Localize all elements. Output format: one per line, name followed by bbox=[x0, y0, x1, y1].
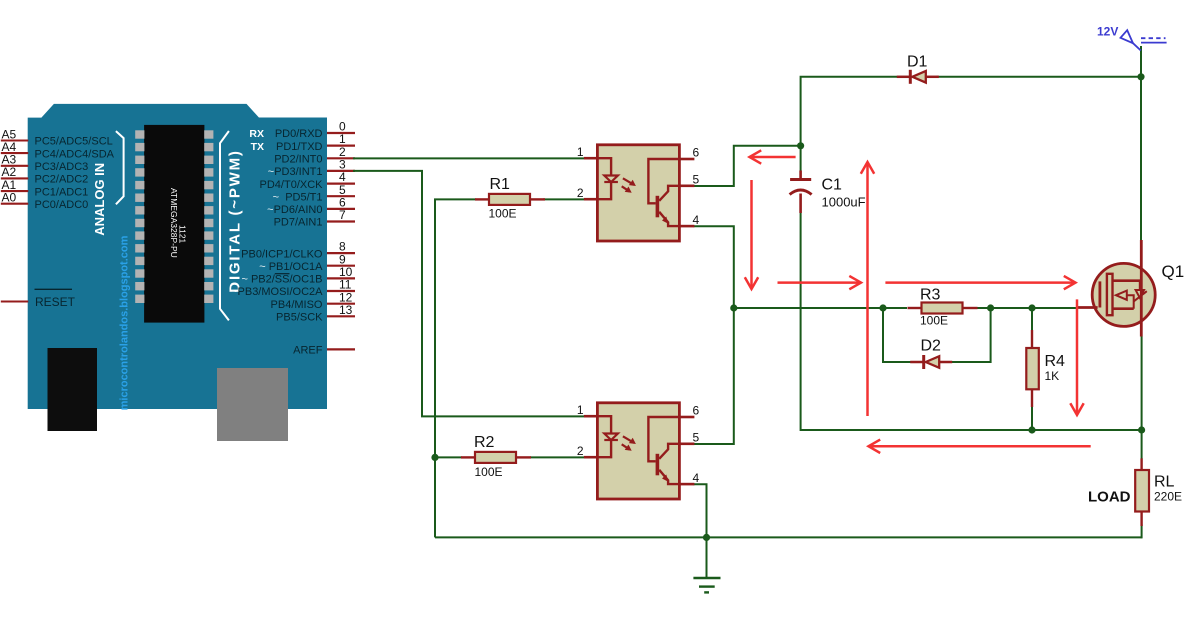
wire opto U2 pin4 to ground tap bbox=[694, 484, 707, 537]
svg-text:6: 6 bbox=[693, 404, 700, 418]
pin 2 bbox=[327, 157, 355, 159]
bracket digital pins bbox=[220, 131, 229, 320]
pin 10 bbox=[327, 277, 355, 279]
resistor R3 body bbox=[908, 307, 922, 309]
svg-text:RX: RX bbox=[249, 128, 264, 140]
pin RESET bbox=[1, 300, 29, 302]
bottom ground rail wire bbox=[435, 536, 1142, 538]
junction C1 node bbox=[797, 142, 804, 149]
power jack (black) bbox=[48, 348, 98, 431]
svg-text:DIGITAL (~PWM): DIGITAL (~PWM) bbox=[227, 149, 244, 292]
optocoupler U1 (top) bbox=[584, 145, 695, 241]
pin A1 PC1/ADC1 bbox=[1, 190, 29, 192]
diode D1 bbox=[897, 76, 911, 79]
pin A0 PC0/ADC0 bbox=[1, 203, 29, 205]
pin 3 bbox=[327, 170, 355, 172]
svg-text:PD4/T0/XCK: PD4/T0/XCK bbox=[260, 179, 324, 191]
pin 6 bbox=[327, 208, 355, 210]
svg-text:D1: D1 bbox=[907, 54, 928, 71]
svg-text:~PB3/MOSI/OC2A: ~PB3/MOSI/OC2A bbox=[231, 286, 323, 298]
wire pin3 down to opto U2 pin1 bbox=[353, 171, 585, 417]
wire Q1 source down bbox=[1141, 337, 1143, 431]
C1 top lead green bbox=[800, 146, 802, 171]
svg-text:6: 6 bbox=[693, 146, 700, 160]
junction gate bus left bbox=[730, 304, 737, 311]
optocoupler U2 (bottom) bbox=[584, 403, 695, 499]
junction ground tap bbox=[703, 534, 710, 541]
svg-text:~ PB1/OC1A: ~ PB1/OC1A bbox=[259, 261, 323, 273]
red arrow current left (top) bbox=[750, 150, 796, 163]
resistor RL (vertical, load) bbox=[1140, 458, 1142, 471]
pin 5 bbox=[327, 195, 355, 197]
arduino board U? (SIMULINO UNO) body bbox=[28, 104, 327, 409]
svg-text:PD7/AIN1: PD7/AIN1 bbox=[274, 217, 323, 229]
svg-text:TX: TX bbox=[251, 141, 264, 153]
svg-text:PD0/RXD: PD0/RXD bbox=[275, 128, 323, 140]
wire opto U2 pin5 up to gate bus bbox=[694, 308, 734, 444]
svg-text:PC0/ADC0: PC0/ADC0 bbox=[35, 199, 89, 211]
svg-text:microcontrolandos.blogspot.com: microcontrolandos.blogspot.com bbox=[119, 235, 131, 410]
wire RL top lead bbox=[1141, 430, 1143, 459]
svg-text:~ PD5/T1: ~ PD5/T1 bbox=[273, 191, 323, 203]
svg-text:PC4/ADC4/SDA: PC4/ADC4/SDA bbox=[35, 148, 115, 160]
wire opto U1 pin4 down to gate bus bbox=[694, 226, 734, 308]
wire pin2 to opto U1 pin1 bbox=[353, 157, 585, 159]
pin 11 bbox=[327, 290, 355, 292]
wire R2 left bbox=[435, 456, 462, 458]
pin 9 bbox=[327, 265, 355, 267]
svg-text:1: 1 bbox=[577, 145, 584, 159]
svg-text:220E: 220E bbox=[1154, 490, 1182, 504]
12V rail down to Q1 drain bbox=[1140, 46, 1142, 240]
svg-text:LOAD: LOAD bbox=[1088, 489, 1131, 506]
red arrow current up (middle) bbox=[861, 162, 874, 416]
pin 7 bbox=[327, 220, 355, 222]
junction 12V / D1 bbox=[1137, 73, 1144, 80]
pin A4 PC4/ADC4/SDA bbox=[1, 152, 29, 154]
wire junction R1/R2 left bbox=[431, 454, 438, 461]
red arrow current right 2 bbox=[885, 276, 1075, 289]
red arrow current left (bottom) bbox=[869, 440, 1091, 453]
wire R1 right to opto U1 pin2 bbox=[543, 198, 585, 200]
svg-text:PB0/ICP1/CLKO: PB0/ICP1/CLKO bbox=[241, 248, 323, 260]
resistor R2 body bbox=[461, 456, 475, 458]
svg-text:~PD6/AIN0: ~PD6/AIN0 bbox=[267, 204, 322, 216]
C1 bottom to source bus wire bbox=[801, 213, 1142, 430]
usb connector (gray) bbox=[217, 368, 288, 441]
svg-text:100E: 100E bbox=[489, 207, 517, 221]
red arrow current down (right) bbox=[1070, 299, 1083, 415]
wire R2 right to opto U2 pin2 bbox=[530, 456, 585, 458]
svg-text:~PD3/INT1: ~PD3/INT1 bbox=[268, 166, 323, 178]
svg-text:100E: 100E bbox=[920, 314, 948, 328]
svg-text:PD2/INT0: PD2/INT0 bbox=[274, 154, 322, 166]
svg-text:12V: 12V bbox=[1097, 25, 1118, 39]
wire R1 left + vertical to R2/ground rail bbox=[435, 199, 476, 537]
svg-text:100E: 100E bbox=[475, 465, 503, 479]
svg-text:RESET: RESET bbox=[35, 295, 76, 309]
resistor R1 body bbox=[475, 198, 489, 200]
red arrow current right 1 bbox=[778, 276, 862, 289]
svg-text:7: 7 bbox=[339, 208, 346, 222]
svg-text:1K: 1K bbox=[1045, 369, 1060, 383]
junction R3 right / D2 bbox=[987, 304, 994, 311]
resistor R4 (vertical) bbox=[1031, 330, 1033, 348]
svg-text:Q1: Q1 bbox=[1162, 262, 1185, 281]
svg-text:R1: R1 bbox=[490, 176, 511, 193]
svg-text:2: 2 bbox=[577, 444, 584, 458]
red arrow current down (left) bbox=[745, 180, 758, 289]
svg-text:1121: 1121 bbox=[178, 225, 188, 244]
ground wire down bbox=[706, 537, 708, 578]
junction Q1 source / RL bbox=[1138, 426, 1145, 433]
svg-text:D2: D2 bbox=[921, 338, 942, 355]
svg-text:C1: C1 bbox=[822, 177, 843, 194]
wire R4 top lead bbox=[1031, 308, 1033, 334]
wire D1 right to 12V rail bbox=[937, 76, 1142, 78]
junction R3 left / D2 bbox=[879, 304, 886, 311]
transistor Q1 (MOSFET) bbox=[1078, 240, 1155, 337]
svg-text:4: 4 bbox=[693, 471, 700, 485]
svg-text:1: 1 bbox=[577, 403, 584, 417]
svg-text:~ PB2/SS/OC1B: ~ PB2/SS/OC1B bbox=[241, 274, 322, 286]
svg-text:4: 4 bbox=[693, 213, 700, 227]
wire RL bottom lead to rail bbox=[1141, 525, 1143, 539]
wire opto U1 pin5 up to C1 node bbox=[694, 146, 801, 186]
IC ATMEGA328P body bbox=[144, 125, 204, 323]
svg-text:A0: A0 bbox=[2, 191, 17, 205]
overline for SS bbox=[275, 273, 290, 275]
pin 4 bbox=[327, 183, 355, 185]
svg-text:PC3/ADC3: PC3/ADC3 bbox=[35, 161, 89, 173]
capacitor C1 bbox=[799, 171, 802, 180]
svg-text:ANALOG IN: ANALOG IN bbox=[92, 163, 107, 236]
pin 12 bbox=[327, 303, 355, 305]
junction R4 top bbox=[1028, 304, 1035, 311]
pin A5 PC5/ADC5/SCL bbox=[1, 139, 29, 141]
diode D2 bbox=[910, 361, 924, 364]
svg-text:PC1/ADC1: PC1/ADC1 bbox=[35, 186, 89, 198]
power terminal 12V bbox=[1121, 30, 1167, 50]
bracket analog pins bbox=[116, 131, 124, 204]
svg-text:2: 2 bbox=[577, 186, 584, 200]
pin A2 PC2/ADC2 bbox=[1, 177, 29, 179]
IC pins left/right (gray pads) bbox=[135, 130, 144, 138]
svg-text:R3: R3 bbox=[920, 287, 941, 304]
pin AREF bbox=[327, 348, 355, 350]
svg-text:R2: R2 bbox=[474, 434, 495, 451]
pin 1 bbox=[327, 145, 355, 147]
svg-text:PB4/MISO: PB4/MISO bbox=[271, 299, 323, 311]
svg-text:1000uF: 1000uF bbox=[822, 195, 866, 210]
svg-text:PD1/TXD: PD1/TXD bbox=[276, 141, 323, 153]
svg-text:RL: RL bbox=[1154, 474, 1175, 491]
svg-text:PC2/ADC2: PC2/ADC2 bbox=[35, 174, 89, 186]
C1 node up to D1 wire bbox=[801, 77, 897, 146]
junction R4 bottom on source bus bbox=[1028, 426, 1035, 433]
svg-text:13: 13 bbox=[339, 303, 353, 317]
gate bus wire bbox=[734, 307, 907, 309]
svg-text:R4: R4 bbox=[1045, 353, 1066, 370]
pin 13 bbox=[327, 315, 355, 317]
pin 0 bbox=[327, 132, 355, 134]
pin 8 bbox=[327, 252, 355, 254]
ground symbol bbox=[693, 577, 720, 579]
svg-text:PC5/ADC5/SCL: PC5/ADC5/SCL bbox=[35, 136, 113, 148]
D2 bypass wire bbox=[883, 308, 911, 362]
svg-text:ATMEGA328P-PU: ATMEGA328P-PU bbox=[169, 188, 179, 258]
wire R4 bottom lead bbox=[1031, 403, 1033, 430]
svg-text:5: 5 bbox=[693, 173, 700, 187]
pin A3 PC3/ADC3 bbox=[1, 165, 29, 167]
svg-text:PB5/SCK: PB5/SCK bbox=[276, 312, 323, 324]
svg-text:5: 5 bbox=[693, 431, 700, 445]
svg-text:AREF: AREF bbox=[293, 345, 323, 357]
